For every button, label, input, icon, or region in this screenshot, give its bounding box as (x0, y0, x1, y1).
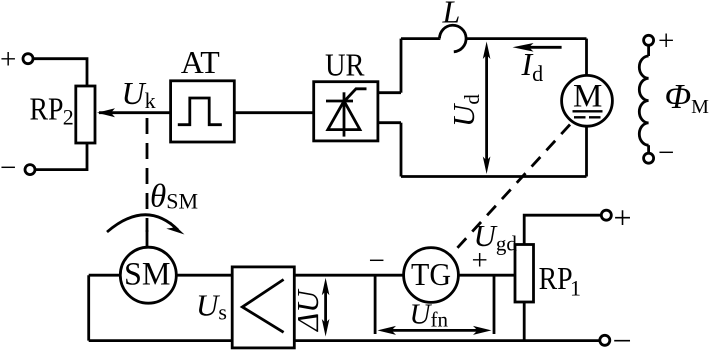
svg-text:+: + (614, 200, 632, 236)
svg-text:L: L (442, 0, 461, 30)
svg-text:Ud: Ud (446, 94, 484, 127)
svg-text:M: M (573, 79, 602, 115)
svg-text:SM: SM (124, 257, 171, 293)
svg-text:Ugd: Ugd (474, 218, 518, 256)
svg-text:ΔU: ΔU (290, 288, 325, 333)
svg-text:2: 2 (63, 104, 74, 129)
svg-text:Id: Id (521, 46, 544, 86)
svg-text:RP: RP (539, 260, 573, 296)
svg-text:TG: TG (411, 256, 451, 292)
svg-text:1: 1 (570, 275, 581, 300)
svg-text:−: − (613, 323, 632, 351)
svg-text:+: + (658, 25, 674, 57)
svg-text:UR: UR (325, 47, 365, 83)
svg-text:−: − (658, 137, 674, 169)
svg-text:−: − (0, 152, 16, 184)
svg-text:Ufn: Ufn (410, 299, 449, 332)
svg-text:RP: RP (30, 91, 64, 127)
svg-text:AT: AT (181, 44, 220, 80)
svg-text:θSM: θSM (150, 179, 198, 215)
svg-text:ΦM: ΦM (665, 77, 710, 118)
svg-text:Us: Us (196, 288, 227, 325)
svg-text:−: − (369, 245, 385, 277)
svg-text:Uk: Uk (122, 75, 156, 113)
svg-text:+: + (0, 44, 16, 76)
